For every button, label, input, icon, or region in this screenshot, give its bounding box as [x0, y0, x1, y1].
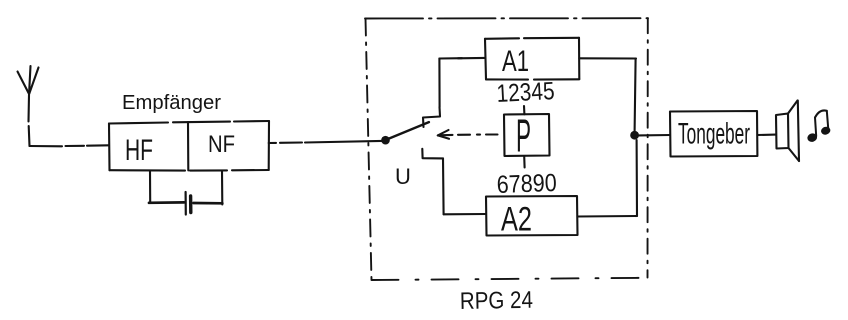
svg-text:P: P — [516, 110, 531, 162]
wire A2 to node — [578, 140, 638, 217]
svg-text:67890: 67890 — [496, 169, 557, 199]
svg-text:Empfänger: Empfänger — [122, 92, 221, 114]
wire NF to switch — [269, 141, 385, 143]
wire Tongeber to speaker — [757, 134, 776, 136]
dash-dot control line P to switch with arrow — [438, 130, 498, 139]
block Tongeber — [670, 111, 757, 157]
RPG 24 dash-dot enclosure — [365, 18, 648, 280]
switch upper contact — [423, 107, 440, 127]
wire antenna to receiver — [30, 145, 110, 146]
svg-text:U: U — [395, 164, 411, 189]
antenna — [18, 66, 39, 146]
switch arm U — [386, 122, 429, 140]
musical notes — [806, 110, 831, 143]
block A1 — [485, 38, 579, 80]
receiver box HF/NF — [109, 121, 269, 171]
svg-text:Tongeber: Tongeber — [678, 118, 750, 151]
svg-text:NF: NF — [208, 131, 235, 158]
svg-text:HF: HF — [125, 134, 153, 167]
speaker LS1 — [776, 101, 799, 162]
capacitor C1 below receiver — [149, 171, 222, 215]
divider HF/NF — [187, 122, 189, 170]
wire switch lower contact to A2 — [443, 158, 486, 214]
output node dot — [630, 131, 639, 140]
switch node dot — [381, 136, 390, 145]
wire switch upper contact to A1 — [439, 58, 485, 107]
svg-text:A1: A1 — [502, 45, 529, 78]
switch lower contact — [422, 149, 443, 159]
svg-text:12345: 12345 — [496, 77, 555, 108]
block P — [504, 106, 550, 168]
wire node to Tongeber — [639, 134, 670, 136]
wire A1 to node — [579, 58, 636, 131]
block A2 — [486, 196, 578, 236]
svg-text:A2: A2 — [501, 201, 532, 239]
svg-text:RPG 24: RPG 24 — [460, 287, 533, 315]
